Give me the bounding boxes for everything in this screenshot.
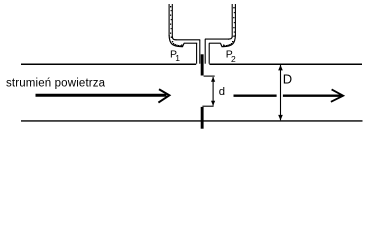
tap tube P2 horizontal section [205,39,229,43]
pipe top wall right segment [209,63,362,65]
tap tube P1 elbow [169,35,184,47]
dimension d extension ticks [202,76,214,106]
tap P2 down stub [205,39,209,64]
pipe bottom wall [21,120,363,122]
svg-text:d: d [219,86,225,98]
svg-text:2: 2 [231,54,236,64]
tap tube P1 vertical section [169,4,172,38]
tap tube P2 vertical section [232,4,235,38]
svg-text:strumień powietrza: strumień powietrza [6,78,106,90]
dimension d arrowheads [211,77,215,106]
tap tube P2 elbow [221,35,236,47]
flow arrow left (thick) [36,89,170,102]
dimension D arrowheads [278,65,283,121]
dimension D arrow line [280,65,282,120]
orifice plate lower half [201,107,204,129]
dimension d arrow line [212,77,214,106]
orifice plate upper half [201,54,204,75]
tap tube P1 horizontal section [176,40,201,43]
tube stipple dots [170,6,235,47]
tap P1 down stub [197,40,200,64]
pipe top wall left segment [21,63,196,65]
svg-text:1: 1 [175,53,180,63]
flow arrow right (broken at D line) [234,89,344,101]
svg-text:D: D [283,71,292,86]
